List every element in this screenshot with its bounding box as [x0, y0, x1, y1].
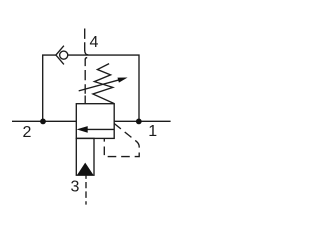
svg-text:2: 2	[22, 124, 31, 141]
svg-text:3: 3	[71, 179, 80, 196]
svg-text:4: 4	[89, 34, 98, 51]
svg-text:1: 1	[148, 123, 157, 140]
